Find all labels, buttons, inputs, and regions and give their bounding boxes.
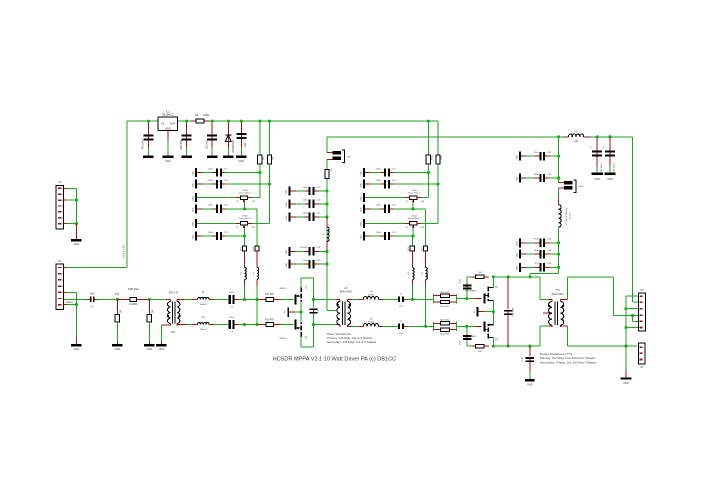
svg-text:100n: 100n [376,168,382,170]
svg-text:4: 4 [62,286,63,288]
svg-text:100n/50V: 100n/50V [180,139,183,150]
svg-text:6: 6 [643,328,644,330]
svg-text:ADT1-1T: ADT1-1T [169,292,179,295]
svg-text:IRF510: IRF510 [279,338,287,340]
svg-text:560nH: 560nH [200,329,207,331]
svg-text:100n: 100n [376,180,382,182]
svg-text:GND: GND [286,250,288,255]
svg-text:100n: 100n [376,232,382,234]
svg-text:GND: GND [516,176,518,181]
svg-text:BN43-2402: BN43-2402 [340,291,353,294]
svg-text:1: 1 [62,268,63,270]
svg-text:R20 1R2: R20 1R2 [441,292,450,294]
svg-text:47u/16V: 47u/16V [142,140,145,149]
svg-text:GND: GND [192,182,194,187]
svg-text:+12V / 1.5A: +12V / 1.5A [122,245,126,259]
svg-text:5: 5 [643,321,644,323]
svg-text:C32 470u: C32 470u [601,162,603,172]
svg-text:1: 1 [62,188,63,190]
svg-text:47u/35V: 47u/35V [300,247,309,249]
svg-text:GND: GND [147,348,153,351]
svg-text:100n: 100n [534,174,540,176]
svg-text:X3: X3 [640,288,644,292]
svg-text:3: 3 [62,200,63,202]
svg-text:GND: GND [286,189,288,194]
svg-text:GND: GND [594,178,600,181]
svg-text:GND: GND [192,207,194,212]
svg-text:GND: GND [286,215,288,220]
svg-text:IN: IN [161,122,164,126]
svg-text:IRF510: IRF510 [279,288,287,290]
svg-text:GND: GND [165,160,171,163]
svg-text:470p: 470p [534,239,540,241]
svg-text:GND: GND [516,252,518,257]
svg-text:2: 2 [643,302,644,304]
svg-text:100n: 100n [534,250,540,252]
svg-text:100n: 100n [90,293,96,296]
svg-text:GND: GND [516,154,518,159]
svg-text:GND: GND [165,127,171,130]
svg-text:6: 6 [62,299,63,301]
svg-text:+: + [590,145,592,149]
svg-text:R11 4R7: R11 4R7 [265,294,275,296]
svg-text:1uH: 1uH [574,141,579,143]
svg-text:BN43-3312: BN43-3312 [552,293,565,296]
svg-text:GND: GND [159,348,165,351]
svg-text:100n: 100n [303,213,309,215]
svg-text:GND: GND [516,241,518,246]
svg-text:100n: 100n [303,187,309,189]
svg-text:100n: 100n [208,180,214,182]
svg-text:HCSDR MPPA V2.1 10 Watt Driv: HCSDR MPPA V2.1 10 Watt Driver PA (c) DB… [273,357,397,363]
svg-text:Driver Bias 2: Driver Bias 2 [408,217,421,220]
svg-text:GND: GND [361,222,363,227]
svg-text:10u/16V: 10u/16V [205,140,208,149]
svg-text:GND: GND [74,348,80,351]
svg-text:OUT: OUT [170,122,176,126]
svg-text:330nH: 330nH [368,322,375,324]
svg-text:GND: GND [286,262,288,267]
svg-text:Secondary: 3 Wdg. CuL 2x0.6mm: Secondary: 3 Wdg. CuL 2x0.6mm Twisted [540,361,596,365]
svg-text:GND: GND [361,234,363,239]
svg-text:GND: GND [115,348,121,351]
svg-text:C33 470u: C33 470u [614,162,616,172]
svg-text:Driver Bias 1: Driver Bias 1 [408,191,421,194]
svg-text:100n: 100n [229,292,235,294]
svg-text:GND: GND [239,160,245,163]
svg-text:7: 7 [62,224,63,226]
svg-text:SMA1A: SMA1A [65,301,73,304]
svg-text:R13 4R7: R13 4R7 [265,319,275,321]
svg-text:GND: GND [192,171,194,176]
svg-text:100n: 100n [303,260,309,262]
svg-text:GND: GND [361,171,363,176]
svg-text:GND: GND [192,234,194,239]
svg-text:100n: 100n [303,200,309,202]
svg-text:C30 100n: C30 100n [513,306,515,316]
svg-text:R21 1R2: R21 1R2 [441,306,450,308]
svg-text:100n: 100n [208,168,214,170]
svg-text:10R: 10R [478,351,482,353]
svg-text:Driver Bias 1: Driver Bias 1 [239,191,252,194]
svg-text:100n: 100n [208,205,214,207]
svg-text:10R: 10R [478,272,482,274]
svg-text:2: 2 [62,194,63,196]
svg-text:GND: GND [192,196,194,201]
svg-text:GND: GND [527,383,533,386]
svg-text:GND: GND [361,207,363,212]
svg-text:GND: GND [192,222,194,227]
svg-text:6: 6 [62,218,63,220]
svg-text:Output Transformer TT1: Output Transformer TT1 [540,352,572,356]
svg-text:Driver Bias 2: Driver Bias 2 [239,217,252,220]
svg-text:Primary: 2x2 Wdg. CuL 2x0.6mm: Primary: 2x2 Wdg. CuL 2x0.6mm Twisted [540,356,595,360]
svg-text:GND: GND [361,182,363,187]
svg-text:3: 3 [62,280,63,282]
svg-text:X1: X1 [58,259,62,263]
svg-text:5: 5 [62,212,63,214]
svg-text:R23 1R2: R23 1R2 [441,334,450,336]
svg-text:100n: 100n [208,232,214,234]
svg-text:Secondary: 2x5 Wdg. CuL 0.3 Tw: Secondary: 2x5 Wdg. CuL 0.3 Twisted [327,340,376,344]
svg-text:R22 1R2: R22 1R2 [441,320,450,322]
svg-text:78L08ACZ: 78L08ACZ [162,113,175,117]
svg-text:X2: X2 [58,180,62,184]
svg-text:4: 4 [643,315,644,317]
svg-text:4: 4 [62,206,63,208]
svg-text:7: 7 [62,305,63,307]
svg-text:100R: 100R [203,113,209,117]
svg-text:+: + [603,145,605,149]
svg-text:GND: GND [516,266,518,271]
svg-text:R4: R4 [195,113,199,117]
svg-text:GND: GND [361,196,363,201]
svg-text:1: 1 [643,296,644,298]
svg-text:TP1: TP1 [115,293,120,296]
svg-text:TT1: TT1 [555,289,560,292]
svg-text:FT 50-43 10 Wdg.: FT 50-43 10 Wdg. [566,207,568,224]
svg-text:100n: 100n [229,317,235,319]
svg-text:100n: 100n [244,142,247,148]
svg-text:BZX85C9V1: BZX85C9V1 [232,139,235,153]
svg-text:560nH: 560nH [200,304,207,306]
svg-text:100n: 100n [534,152,540,154]
svg-text:330nH: 330nH [368,295,375,297]
svg-text:GND: GND [607,178,613,181]
svg-text:5: 5 [62,292,63,294]
svg-text:100n: 100n [376,205,382,207]
svg-text:GND: GND [74,243,80,246]
svg-text:GND: GND [286,202,288,207]
svg-text:-6dB Pad: -6dB Pad [127,287,139,291]
svg-text:3: 3 [643,309,644,311]
svg-text:TR1: TR1 [170,331,175,334]
svg-text:0.3 CuL: 0.3 CuL [570,212,572,220]
svg-text:GND: GND [623,382,629,385]
svg-text:X4: X4 [640,365,644,369]
svg-text:2: 2 [62,274,63,276]
svg-text:2x100R: 2x100R [129,304,137,306]
